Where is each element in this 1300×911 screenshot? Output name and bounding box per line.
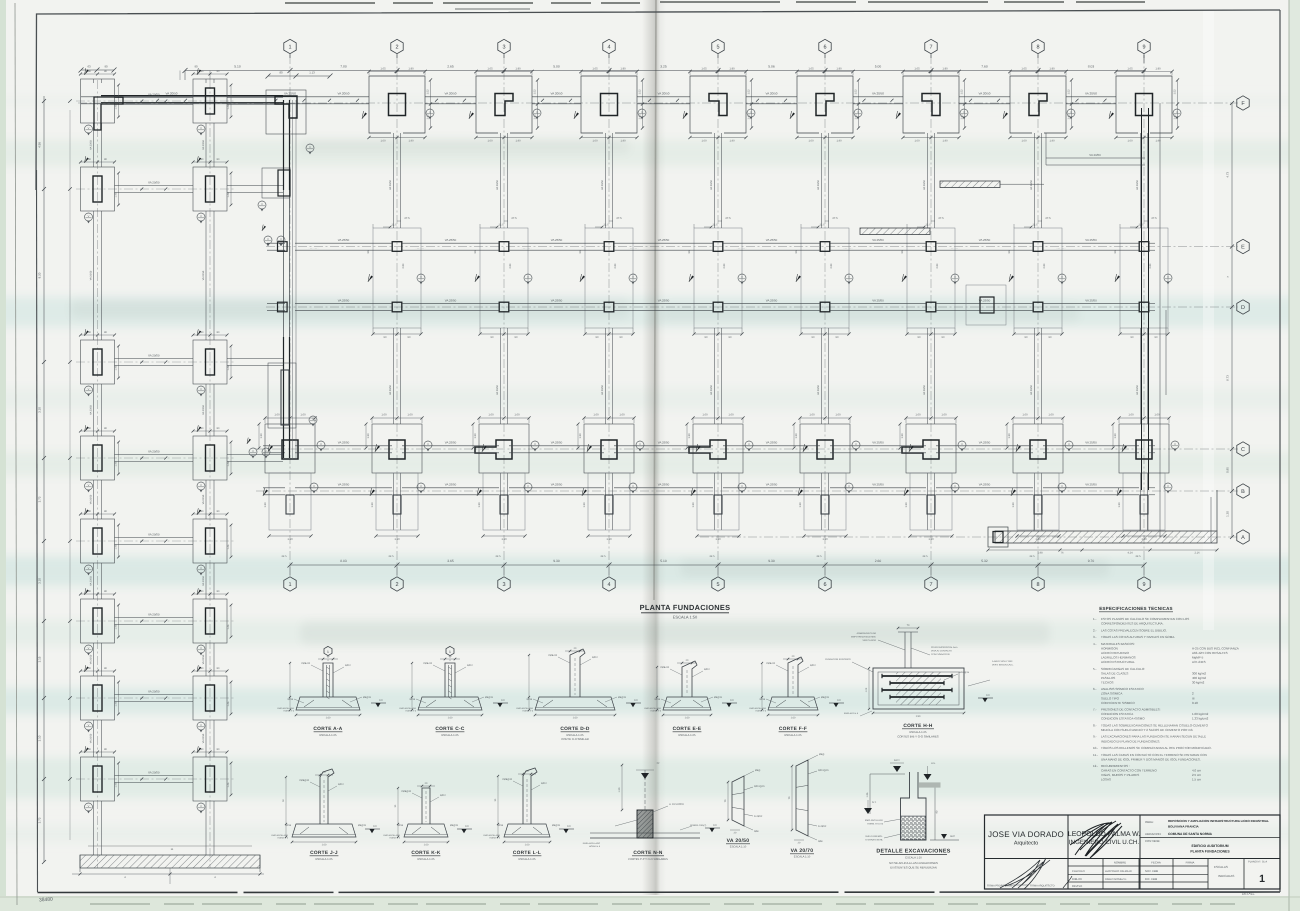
svg-text:EMPLANTILLADO: EMPLANTILLADO — [516, 707, 533, 710]
svg-text:VA 20/50: VA 20/50 — [148, 771, 160, 775]
footing C/B axis x=718 — [693, 424, 743, 473]
svg-text:Ø8@15: Ø8@15 — [363, 696, 372, 699]
wing footing x=210 y=779 — [193, 757, 227, 801]
svg-text:0.0: 0.0 — [730, 699, 734, 702]
svg-text:1.45: 1.45 — [227, 701, 230, 706]
svg-text:9: 9 — [1142, 44, 1145, 50]
grid axis wing-right — [209, 80, 211, 868]
top dimension chain — [185, 70, 1144, 72]
svg-text:VA 20/50: VA 20/50 — [766, 92, 778, 96]
svg-text:1.00: 1.00 — [619, 414, 625, 417]
grid axis wing-left — [97, 80, 99, 868]
svg-text:1.00: 1.00 — [514, 414, 520, 417]
footing F axis x=397 — [369, 76, 425, 133]
svg-text:SALAS DE CLASES: SALAS DE CLASES — [1101, 671, 1128, 675]
svg-text:· — · — ·: · — · — · — [309, 247, 319, 250]
svg-text:1.90: 1.90 — [620, 140, 626, 143]
svg-text:8.73: 8.73 — [1226, 375, 1230, 381]
strip footing VA 25/50 row E — [267, 242, 285, 244]
grid axis 8 — [1037, 55, 1039, 575]
svg-text:ESTOS PLANOS DE CALCULO SE COM: ESTOS PLANOS DE CALCULO SE COMPLEMENTAN … — [1101, 617, 1189, 621]
svg-text:FECHA: FECHA — [1151, 861, 1161, 865]
svg-text:TODAS LAS SOBREEXCAVACIONES SE: TODAS LAS SOBREEXCAVACIONES SE RELLENARA… — [1101, 723, 1209, 727]
svg-text:2Ø16: 2Ø16 — [654, 698, 660, 701]
svg-text:CONDICION ESTATICA+SISMO: CONDICION ESTATICA+SISMO — [1101, 717, 1145, 721]
grid axis 7 — [930, 55, 932, 575]
beam row E right — [860, 228, 930, 235]
svg-text:7: 7 — [929, 582, 932, 588]
svg-text:ESCALA 1:50: ESCALA 1:50 — [673, 615, 698, 620]
svg-text:22.5: 22.5 — [391, 224, 397, 227]
svg-text:EXISTENTES QUE SE REFUERZAN: EXISTENTES QUE SE REFUERZAN — [890, 865, 937, 869]
svg-text:VA 25/50: VA 25/50 — [551, 441, 563, 445]
svg-text:V: V — [857, 111, 859, 114]
svg-text:3.73: 3.73 — [38, 496, 42, 502]
footing F axis x=931 — [903, 76, 959, 133]
svg-text:1.45: 1.45 — [227, 782, 230, 787]
svg-text:11.-: 11.- — [1093, 753, 1098, 757]
svg-text:9: 9 — [1142, 582, 1145, 588]
svg-text:0.0: 0.0 — [567, 825, 571, 828]
svg-text:22.5: 22.5 — [709, 555, 715, 558]
svg-text:1.30: 1.30 — [260, 433, 263, 439]
svg-text:1.45: 1.45 — [115, 701, 118, 706]
grid bubble D right — [1237, 300, 1249, 314]
strip footing VA 20/50 row F — [101, 95, 283, 97]
svg-text:VA 20/50: VA 20/50 — [872, 92, 884, 96]
svg-text:VA 25/50: VA 25/50 — [445, 441, 457, 445]
svg-text:CORTES P-P Y O-O SIMILARES: CORTES P-P Y O-O SIMILARES — [628, 858, 668, 861]
svg-text:3.-: 3.- — [1093, 635, 1097, 639]
section CORTE H-H — [873, 668, 964, 709]
svg-text:VA 25/50: VA 25/50 — [766, 238, 778, 242]
svg-text:VA 25/50: VA 25/50 — [658, 238, 670, 242]
svg-text:VA 20/50: VA 20/50 — [338, 92, 350, 96]
svg-text:VA 20/50: VA 20/50 — [202, 733, 205, 743]
svg-text:Ø8@15: Ø8@15 — [618, 696, 627, 699]
grid bubble E right — [1237, 239, 1249, 253]
svg-text:Ø8@15: Ø8@15 — [485, 696, 494, 699]
svg-text:V: V — [88, 484, 90, 487]
footing C/B axis x=609 — [584, 424, 634, 473]
svg-text:1.30: 1.30 — [799, 502, 802, 508]
strip row B — [263, 487, 285, 489]
svg-text:V: V — [88, 724, 90, 727]
svg-text:1.00: 1.00 — [424, 843, 429, 846]
svg-text:1.05: 1.05 — [914, 67, 920, 70]
svg-text:1.52: 1.52 — [960, 89, 963, 95]
grid bubble 9 top — [1138, 39, 1150, 53]
svg-text:V: V — [954, 276, 956, 279]
svg-text:V: V — [848, 276, 850, 279]
svg-text:ESCALA 1:25: ESCALA 1:25 — [417, 857, 435, 861]
section CORTE K-K — [404, 824, 448, 837]
svg-text:1.30: 1.30 — [901, 433, 904, 439]
marker pair wall upper — [264, 236, 272, 244]
svg-text:VA 20/50: VA 20/50 — [710, 179, 713, 190]
svg-text:4Ø12: 4Ø12 — [345, 664, 351, 667]
svg-text:CORTE N-N: CORTE N-N — [633, 850, 663, 856]
svg-text:CORTE F-F: CORTE F-F — [779, 726, 807, 732]
svg-text:ARMADURA PILAR: ARMADURA PILAR — [857, 632, 877, 635]
svg-text:1.00: 1.00 — [593, 414, 599, 417]
svg-text:V: V — [200, 647, 202, 650]
grid bubble F right — [1237, 96, 1249, 110]
middle footing strip x=397 — [373, 228, 421, 328]
svg-text:2Ø16: 2Ø16 — [526, 698, 532, 701]
svg-text:MqMP-5: MqMP-5 — [1192, 655, 1204, 659]
svg-text:CALCULO: CALCULO — [1072, 870, 1085, 873]
wing vertical strips — [93, 123, 95, 167]
svg-text:DIC. 1988: DIC. 1988 — [1145, 878, 1158, 881]
svg-text:ZONA SISMICA: ZONA SISMICA — [1101, 692, 1122, 696]
svg-text:1.30: 1.30 — [478, 502, 481, 508]
svg-text:EMPLANTILLADO: EMPLANTILLADO — [644, 707, 661, 710]
svg-text:H.S.: H.S. — [931, 762, 936, 765]
svg-text:1.90: 1.90 — [515, 67, 521, 70]
svg-text:4.0 cm: 4.0 cm — [1192, 769, 1202, 773]
svg-text:3.10: 3.10 — [38, 407, 42, 413]
wing footing x=210 y=458 — [193, 436, 227, 480]
svg-text:EMPLANT. H-5: EMPLANT. H-5 — [844, 712, 859, 715]
sheet top edge dashes — [285, 2, 640, 4]
svg-text:3: 3 — [502, 582, 505, 588]
svg-text:VA 20/50: VA 20/50 — [601, 179, 604, 190]
svg-text:22.5: 22.5 — [600, 555, 606, 558]
svg-text:1.45: 1.45 — [227, 624, 230, 629]
svg-text:VA 20/50: VA 20/50 — [148, 613, 160, 617]
svg-text:CONDICION ESTATICA: CONDICION ESTATICA — [1101, 712, 1133, 716]
svg-text:1.00: 1.00 — [702, 414, 708, 417]
svg-text:VA 25/50: VA 25/50 — [445, 299, 457, 303]
extra footing D-E col 8 — [966, 285, 1006, 325]
svg-text:1.00: 1.00 — [300, 414, 306, 417]
svg-text:VA 20/50: VA 20/50 — [166, 92, 178, 96]
svg-text:EDIFICIO AUDITORIUM: EDIFICIO AUDITORIUM — [1191, 844, 1228, 848]
svg-text:22.5: 22.5 — [712, 224, 718, 227]
svg-text:FIRMA: FIRMA — [1186, 861, 1195, 865]
svg-text:1.52: 1.52 — [426, 89, 429, 95]
svg-text:C: C — [1241, 447, 1245, 453]
svg-text:CORTE H-H: CORTE H-H — [903, 723, 933, 729]
svg-text:0.0: 0.0 — [373, 825, 377, 828]
svg-text:NOMBRE: NOMBRE — [1114, 861, 1126, 865]
svg-text:1.05: 1.05 — [487, 67, 493, 70]
svg-text:2: 2 — [395, 582, 398, 588]
corner footing A1 — [94, 97, 123, 130]
svg-text:1.30: 1.30 — [264, 502, 267, 508]
svg-text:1.52: 1.52 — [854, 89, 857, 95]
grid axis B — [256, 490, 1238, 492]
wing footing x=97.5 y=458 — [81, 436, 115, 480]
svg-text:CORTE C-C: CORTE C-C — [435, 726, 465, 732]
svg-text:Ø8@15: Ø8@15 — [714, 696, 723, 699]
svg-text:TECHOS: TECHOS — [1101, 680, 1114, 684]
svg-text:5: 5 — [716, 44, 719, 50]
svg-text:4.-: 4.- — [1093, 642, 1097, 646]
svg-text:1.00: 1.00 — [809, 414, 815, 417]
svg-text:1.90: 1.90 — [620, 67, 626, 70]
svg-text:VA 20/50: VA 20/50 — [389, 384, 392, 395]
svg-text:VA 20/50: VA 20/50 — [817, 384, 820, 395]
svg-text:VA 20/50: VA 20/50 — [1136, 384, 1139, 395]
svg-text:VA 20/50: VA 20/50 — [445, 92, 457, 96]
svg-text:12.-: 12.- — [1093, 764, 1098, 768]
svg-text:2.65: 2.65 — [447, 65, 454, 69]
small links B to A — [1033, 514, 1035, 531]
footing F axis x=825 — [797, 76, 853, 133]
svg-text:1.90: 1.90 — [729, 140, 735, 143]
svg-text:VA 25/50: VA 25/50 — [979, 238, 991, 242]
section CORTE L-L — [504, 824, 550, 837]
wing footing x=210 y=698 — [193, 676, 227, 720]
svg-text:1.05: 1.05 — [1021, 67, 1027, 70]
svg-text:LAS COTAS PREVALECEN SOBRE EL: LAS COTAS PREVALECEN SOBRE EL DIBUJO. — [1101, 628, 1167, 632]
svg-text:90: 90 — [194, 65, 198, 69]
svg-text:VA 20/50: VA 20/50 — [202, 270, 205, 280]
grid bubble 7 top — [925, 39, 937, 53]
svg-text:LEOPOLDO PALMA W.: LEOPOLDO PALMA W. — [1105, 870, 1132, 873]
svg-text:VA 20/50: VA 20/50 — [923, 384, 926, 395]
svg-text:A-BAJO VIGA Y REF.: A-BAJO VIGA Y REF. — [992, 660, 1013, 663]
svg-text:1.00: 1.00 — [835, 414, 841, 417]
green sheet edges — [0, 0, 6, 911]
grid axis C — [256, 448, 1238, 450]
svg-text:VA 25/50: VA 25/50 — [445, 238, 457, 242]
svg-text:PLANTA FUNDACIONES: PLANTA FUNDACIONES — [640, 603, 731, 612]
svg-text:VA 25/50: VA 25/50 — [338, 441, 350, 445]
wing footing x=97.5 y=101 — [81, 79, 115, 123]
svg-text:V: V — [200, 127, 202, 130]
svg-text:VA 25/50: VA 25/50 — [338, 238, 350, 242]
svg-text:VA 20/50: VA 20/50 — [1085, 92, 1097, 96]
svg-text:VA 25/50: VA 25/50 — [1085, 299, 1097, 303]
svg-text:TODAS LAS CARAS EN CONTACTO CO: TODAS LAS CARAS EN CONTACTO CON EL TERRE… — [1101, 753, 1207, 757]
svg-text:1.00: 1.00 — [488, 414, 494, 417]
svg-text:4Ø18@15: 4Ø18@15 — [959, 671, 970, 674]
svg-text:V: V — [261, 203, 263, 206]
vertical strips columns — [393, 133, 395, 228]
grid bubble 6 top — [819, 39, 831, 53]
svg-text:2Ø16: 2Ø16 — [285, 824, 291, 827]
svg-text:2.80: 2.80 — [509, 263, 512, 268]
svg-text:VERT. SEGUN CALC.: VERT. SEGUN CALC. — [992, 663, 1014, 666]
svg-text:27.5: 27.5 — [1045, 217, 1051, 220]
svg-text:2.80: 2.80 — [723, 263, 726, 268]
svg-text:VA 25/50: VA 25/50 — [766, 299, 778, 303]
middle footing strip x=931 — [907, 228, 955, 328]
grid bubble B right — [1237, 484, 1249, 498]
svg-text:ANALISIS SISMICO ESTATICO:: ANALISIS SISMICO ESTATICO: — [1101, 687, 1144, 691]
svg-text:VA 20/50: VA 20/50 — [923, 179, 926, 190]
svg-text:V: V — [88, 388, 90, 391]
svg-text:0.0: 0.0 — [837, 699, 841, 702]
svg-text:UBICACION:: UBICACION: — [1145, 832, 1162, 836]
svg-text:ACERO ESTRUCTURAL: ACERO ESTRUCTURAL — [1101, 660, 1135, 664]
svg-text:3Ø8: 3Ø8 — [754, 830, 759, 833]
svg-text:2.80: 2.80 — [1043, 263, 1046, 268]
svg-text:4Ø12: 4Ø12 — [440, 794, 446, 797]
svg-text:3.25: 3.25 — [660, 65, 667, 69]
svg-text:VA 20/50: VA 20/50 — [90, 654, 93, 664]
svg-text:V: V — [200, 215, 202, 218]
svg-text:9.30: 9.30 — [553, 559, 560, 563]
right edge vertical strip — [1159, 103, 1161, 537]
svg-text:VA 20/50: VA 20/50 — [90, 140, 93, 150]
svg-text:9.-: 9.- — [1093, 735, 1097, 739]
detail DETALLE EXCAVACIONES — [901, 772, 927, 840]
svg-text:300 kg/m2: 300 kg/m2 — [1192, 671, 1206, 675]
wing-to-wall strip — [227, 97, 283, 99]
svg-text:VA 25/50: VA 25/50 — [979, 441, 991, 445]
svg-text:VIGAS, MUROS Y PILARES: VIGAS, MUROS Y PILARES — [1101, 773, 1139, 777]
svg-text:EØ8×20: EØ8×20 — [767, 662, 776, 665]
svg-text:INDICADO EN PLANO DE FUNDACION: INDICADO EN PLANO DE FUNDACIONES. — [1101, 739, 1160, 743]
footing F axis x=718 — [690, 76, 746, 133]
svg-text:7: 7 — [929, 44, 932, 50]
svg-text:V: V — [1070, 111, 1072, 114]
svg-text:REVISO: REVISO — [1072, 885, 1082, 888]
svg-text:EØ8@20: EØ8@20 — [402, 790, 412, 793]
svg-text:3.15: 3.15 — [38, 656, 42, 662]
grid bubble 1 bottom — [284, 577, 296, 591]
svg-text:2.-: 2.- — [1093, 628, 1097, 632]
svg-text:2.80: 2.80 — [614, 263, 617, 268]
svg-text:VA 25/50: VA 25/50 — [766, 441, 778, 445]
svg-text:1.45: 1.45 — [115, 365, 118, 370]
svg-text:1.10: 1.10 — [501, 538, 507, 541]
svg-text:JOSE VIA DORADO: JOSE VIA DORADO — [988, 830, 1064, 839]
svg-text:0.0: 0.0 — [986, 694, 990, 697]
svg-text:ESCALA 1:25: ESCALA 1:25 — [678, 733, 696, 737]
footing F axis x=504 — [476, 76, 532, 133]
svg-text:VA 25/50: VA 25/50 — [658, 299, 670, 303]
svg-text:8.03: 8.03 — [1088, 65, 1095, 69]
svg-text:1.90: 1.90 — [408, 140, 414, 143]
svg-text:LOSAS: LOSAS — [1101, 778, 1111, 782]
svg-text:ESCALA 1:25: ESCALA 1:25 — [784, 733, 802, 737]
svg-text:10.-: 10.- — [1093, 746, 1098, 750]
svg-text:A: A — [1241, 535, 1245, 541]
svg-text:HORM. H-5: HORM. H-5 — [390, 837, 401, 840]
svg-text:1.05: 1.05 — [592, 67, 598, 70]
wing footing x=210 y=541 — [193, 519, 227, 563]
svg-text:VA 25/50: VA 25/50 — [1085, 483, 1097, 487]
section CORTE D-D — [535, 697, 615, 710]
grid bubble 1 top — [284, 39, 296, 53]
svg-text:27.5: 27.5 — [832, 217, 838, 220]
wall side strip lines — [292, 100, 294, 460]
footing C/B axis x=1144 — [1119, 424, 1169, 473]
svg-text:VA 20/50: VA 20/50 — [202, 494, 205, 504]
svg-text:VER PLANTA: VER PLANTA — [863, 639, 877, 642]
svg-text:3: 3 — [502, 44, 505, 50]
svg-text:1.90: 1.90 — [729, 67, 735, 70]
svg-text:22.5: 22.5 — [498, 224, 504, 227]
svg-text:INDICADAS: INDICADAS — [1218, 874, 1234, 878]
section CORTE C-C — [418, 697, 482, 710]
svg-text:1.52: 1.52 — [638, 89, 641, 95]
svg-text:1: 1 — [288, 44, 291, 50]
section CORTE N-N — [590, 837, 700, 839]
grid axis 9 — [1143, 55, 1145, 575]
svg-text:1.45: 1.45 — [115, 461, 118, 466]
svg-text:1.30: 1.30 — [371, 502, 374, 508]
svg-text:1.00: 1.00 — [1021, 140, 1027, 143]
svg-text:8.20: 8.20 — [38, 272, 42, 278]
grid axis 6 — [824, 55, 826, 575]
svg-text:1.30: 1.30 — [474, 433, 477, 439]
svg-text:N.P.T.: N.P.T. — [894, 759, 901, 762]
svg-text:2Ø16: 2Ø16 — [287, 698, 293, 701]
sheet inner edge (left) — [15, 3, 17, 905]
wing footing x=210 y=189 — [193, 167, 227, 211]
svg-text:ESCALA 1:25: ESCALA 1:25 — [315, 857, 333, 861]
svg-text:1.00: 1.00 — [701, 140, 707, 143]
svg-text:1.60: 1.60 — [448, 716, 453, 719]
svg-text:1.30: 1.30 — [1012, 502, 1015, 508]
svg-text:7.-: 7.- — [1093, 708, 1097, 712]
svg-text:1.52: 1.52 — [747, 89, 750, 95]
svg-text:PASILLOS: PASILLOS — [1101, 676, 1115, 680]
svg-text:TODAS LAS COTAS ALTURAS Y NIVE: TODAS LAS COTAS ALTURAS Y NIVELES EN GOM… — [1101, 635, 1175, 639]
svg-text:1.60: 1.60 — [326, 716, 331, 719]
svg-text:1.5 cm: 1.5 cm — [1192, 778, 1202, 782]
svg-text:VA 20/50: VA 20/50 — [658, 92, 670, 96]
svg-text:1.00: 1.00 — [808, 140, 814, 143]
svg-text:3.65: 3.65 — [447, 559, 454, 563]
strip row C — [263, 445, 285, 447]
svg-text:VA 20/50: VA 20/50 — [90, 494, 93, 504]
svg-text:1.90: 1.90 — [515, 140, 521, 143]
bottom dimension chain — [290, 564, 1144, 566]
svg-text:1.90: 1.90 — [836, 140, 842, 143]
svg-text:VA 20/50: VA 20/50 — [148, 690, 160, 694]
svg-text:3.10: 3.10 — [38, 578, 42, 584]
svg-text:1.00: 1.00 — [381, 414, 387, 417]
svg-text:4Ø12: 4Ø12 — [467, 664, 473, 667]
svg-text:1.00: 1.00 — [1022, 414, 1028, 417]
svg-text:4Ø12: 4Ø12 — [810, 664, 816, 667]
wing footing x=97.5 y=541 — [81, 519, 115, 563]
svg-text:VA 25/50: VA 25/50 — [658, 483, 670, 487]
svg-text:COEFICIENTE SISMICO: COEFICIENTE SISMICO — [1101, 701, 1135, 705]
svg-text:22.5: 22.5 — [1135, 555, 1141, 558]
svg-text:6: 6 — [823, 582, 826, 588]
svg-text:SOBRELOSA(?): SOBRELOSA(?) — [690, 824, 706, 827]
svg-text:5.00: 5.00 — [875, 65, 882, 69]
svg-text:1.10: 1.10 — [928, 538, 934, 541]
wing footing x=210 y=101 — [193, 79, 227, 123]
svg-text:CARAS EN CONTACTO CON TERRENO: CARAS EN CONTACTO CON TERRENO — [1101, 769, 1157, 773]
svg-text:22.5: 22.5 — [1032, 224, 1038, 227]
svg-text:VA 20/50: VA 20/50 — [601, 384, 604, 395]
svg-text:1.90: 1.90 — [408, 67, 414, 70]
svg-text:1: 1 — [327, 650, 329, 654]
svg-text:80: 80 — [279, 71, 283, 75]
svg-text:EMPLANTILLADO: EMPLANTILLADO — [583, 842, 601, 845]
svg-text:1.30: 1.30 — [583, 502, 586, 508]
wing footing x=210 y=362 — [193, 340, 227, 384]
svg-text:VA 25/50: VA 25/50 — [338, 483, 350, 487]
svg-text:D: D — [1241, 305, 1245, 311]
grid bubble 2 bottom — [391, 577, 403, 591]
middle footing strip x=1038 — [1014, 228, 1062, 328]
svg-text:1: 1 — [449, 650, 451, 654]
svg-text:4: 4 — [607, 582, 610, 588]
svg-text:0.0: 0.0 — [465, 825, 469, 828]
grid bubble 4 bottom — [603, 577, 615, 591]
